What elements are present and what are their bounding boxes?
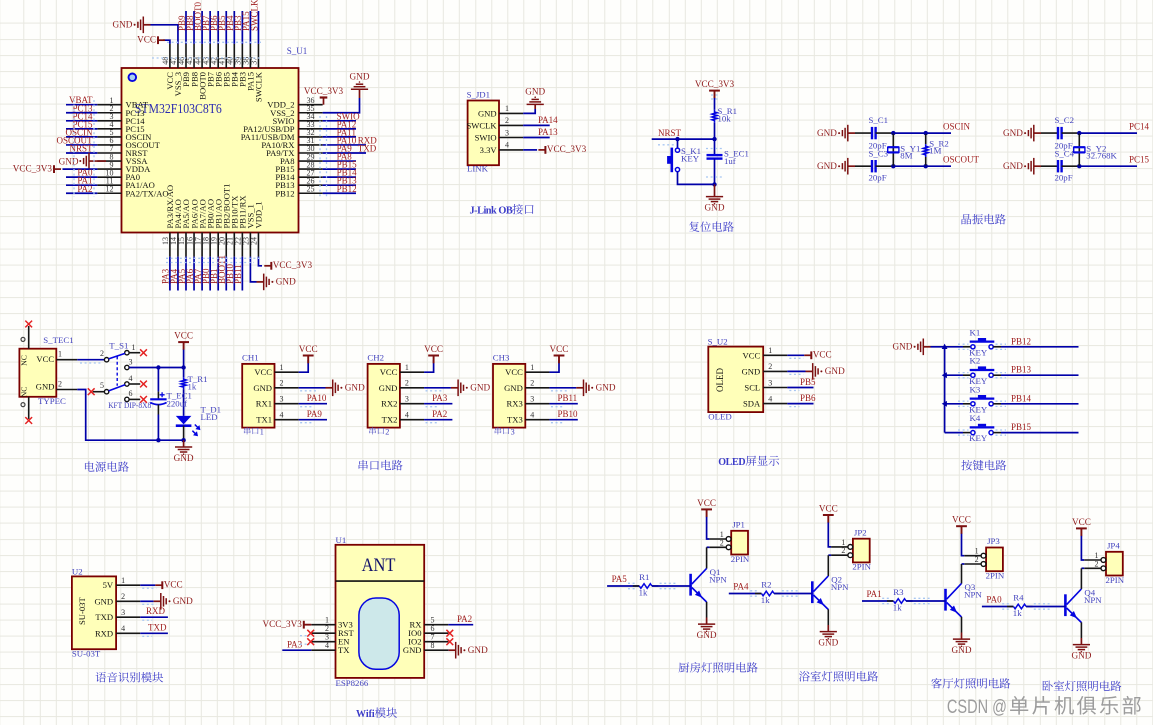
svg-text:PB11: PB11 <box>233 264 243 284</box>
pin 16 PA6/AO (bottom) <box>185 199 199 256</box>
svg-text:OLED: OLED <box>718 457 745 468</box>
caption yushideng zhaoming dianlu <box>799 671 810 681</box>
pin 44 BOOT0 (top) <box>193 44 207 100</box>
wire + net label PA1 <box>862 589 894 601</box>
pin 15 PA5/AO (bottom) <box>177 199 191 256</box>
svg-text:3: 3 <box>511 427 515 436</box>
wire + net label PC13 (pin 2) <box>66 103 97 113</box>
svg-text:GND: GND <box>818 638 838 648</box>
connector CH3 body <box>493 352 526 427</box>
op-amp U1 -- MCU S_U1 STM32F103C8T6 body <box>122 46 308 233</box>
svg-text:3: 3 <box>530 395 534 404</box>
wire GND to S_C4 <box>1041 165 1057 167</box>
selection dashes (CH3) <box>551 391 570 423</box>
pin 2 GND (S_U2) <box>742 362 788 376</box>
svg-text:GND: GND <box>345 383 365 393</box>
wire VCC to JP4 pin1 <box>1081 536 1084 560</box>
svg-text:GND: GND <box>817 161 837 171</box>
switch T_S1 KFT DIP-8X8 <box>93 340 152 410</box>
pin 2 GND (S_TEC1) <box>56 379 77 389</box>
svg-text:VCC_3V3: VCC_3V3 <box>695 79 735 89</box>
svg-text:2: 2 <box>530 379 534 388</box>
no-connect X at U1 RST <box>307 630 314 637</box>
pin 14 PA4/AO (bottom) <box>169 199 183 256</box>
pin 5 OSCIN (left) <box>97 128 152 142</box>
svg-text:1: 1 <box>405 363 409 372</box>
svg-text:VCC: VCC <box>505 367 523 377</box>
svg-text:PA0: PA0 <box>986 595 1002 605</box>
svg-text:8: 8 <box>431 641 435 650</box>
pin 4 RXD (U2) <box>95 624 140 638</box>
svg-text:OLED: OLED <box>708 412 731 422</box>
push button K1 KEY <box>969 327 994 357</box>
pin 38 PA15 (top) <box>242 44 256 91</box>
pin NC top (S_TEC1) <box>21 326 29 349</box>
pin 35 VSS_2 (right) <box>270 104 323 118</box>
svg-text:1: 1 <box>260 427 264 436</box>
pin 4 TX2 (CH2) <box>382 411 424 425</box>
connector JP3 2PIN body <box>986 536 1005 580</box>
svg-text:GND: GND <box>468 645 488 655</box>
selection dashes on VCC wire <box>80 362 102 364</box>
pin NC bottom (S_TEC1) <box>21 397 29 419</box>
wire + net label OSCOUT <box>893 155 979 167</box>
pin 3 EN (U1 left) <box>311 633 350 647</box>
resistor T_R1 1k <box>181 374 207 392</box>
svg-text:GND: GND <box>705 203 725 213</box>
svg-text:PA14: PA14 <box>538 115 558 125</box>
svg-text:OLED: OLED <box>715 368 725 392</box>
svg-text:2: 2 <box>505 116 509 125</box>
pin 31 PA10/RX (right) <box>261 136 322 150</box>
svg-text:GND: GND <box>276 277 296 287</box>
svg-text:5: 5 <box>100 381 104 390</box>
pin 2 (JP2) <box>831 546 853 557</box>
resistor S_R2 1M <box>923 138 948 157</box>
power VCC_3V3 at U1 pin1 <box>262 619 311 629</box>
junction node PC15 <box>1077 164 1081 168</box>
svg-text:PA4: PA4 <box>733 582 749 592</box>
junction bottom node at cap <box>156 438 160 442</box>
svg-text:PB10: PB10 <box>558 409 579 419</box>
wire T_S1 pin3 to VCC rail <box>129 367 184 369</box>
pin 2 SWCLK (S_JD1) <box>467 116 524 130</box>
wire + net label BOOT1 (pin 20) <box>217 255 227 291</box>
connector S_JD1 LINK body <box>467 90 499 174</box>
pin 21 PB10/TX (bottom) <box>226 195 240 257</box>
svg-text:SWCLK: SWCLK <box>249 0 259 31</box>
svg-text:JP3: JP3 <box>987 536 1000 546</box>
svg-text:GND: GND <box>596 383 616 393</box>
wire bottom node to GND <box>714 184 716 196</box>
svg-text:PB12: PB12 <box>337 184 357 194</box>
pin 24 VDD_1 (bottom) <box>250 201 264 256</box>
svg-text:NC: NC <box>20 387 29 398</box>
svg-text:PA5: PA5 <box>612 574 628 584</box>
pin 47 VSS_3 (top) <box>169 44 183 97</box>
selection dashes (S_U2) <box>789 358 803 406</box>
pin 1 (JP2) <box>831 538 853 549</box>
no-connect X top <box>25 321 32 328</box>
svg-text:TXD: TXD <box>95 612 113 622</box>
svg-text:OSCOUT: OSCOUT <box>943 155 980 165</box>
svg-text:3: 3 <box>405 395 409 404</box>
ground GND (Q3) <box>952 633 972 656</box>
wire U1 pin8 to GND <box>447 649 449 651</box>
svg-text:KEY: KEY <box>681 154 700 164</box>
pin 3 TXD (U2) <box>95 608 140 622</box>
pin 4 PC15 (left) <box>97 120 144 134</box>
wire S_U2 pin2 to GND <box>787 370 805 372</box>
capacitor S_C3 20pF <box>869 149 889 183</box>
svg-text:LINK: LINK <box>467 163 489 173</box>
wire + net label PA14 (SWCLK) <box>523 115 558 126</box>
pin 6 IO0 (U1 right) <box>408 624 448 638</box>
power VCC at U2 pin1 <box>161 581 163 589</box>
svg-text:K2: K2 <box>970 356 981 366</box>
wire NRST node down to key S_K1 <box>677 139 679 148</box>
svg-text:GND: GND <box>1003 161 1023 171</box>
connector CH2 body <box>367 352 400 427</box>
pin 18 PB0/AO (bottom) <box>201 199 215 257</box>
pin 2 GND (CH3) <box>504 379 549 393</box>
pin 48 VCC (top) <box>161 44 175 90</box>
svg-text:S_TEC1: S_TEC1 <box>43 335 73 345</box>
emitter lead Q1 <box>706 602 708 618</box>
wire bottom node to GND <box>183 440 185 447</box>
svg-text:2: 2 <box>1095 559 1099 568</box>
junction bottom node <box>712 182 716 186</box>
svg-text:2: 2 <box>975 555 979 564</box>
wire VCC to JP3 pin1 <box>962 534 965 556</box>
pin 23 VSS_1 (bottom) <box>242 204 256 257</box>
wire + net label NRST <box>652 128 715 139</box>
svg-text:PA2: PA2 <box>77 184 92 194</box>
collector lead Q3 <box>961 564 963 584</box>
push button K4 KEY <box>969 413 994 443</box>
wire + net label PA7 (pin 17) <box>193 257 203 291</box>
pin 3 RX2 (CH2) <box>381 395 424 409</box>
pin 4 TX3 (CH3) <box>507 411 549 425</box>
svg-text:ESP8266: ESP8266 <box>336 678 369 688</box>
svg-text:GND: GND <box>1071 651 1091 661</box>
svg-text:PB11: PB11 <box>558 393 578 403</box>
svg-text:GND: GND <box>504 383 523 393</box>
collector lead Q2 <box>827 555 829 576</box>
pin 1 5V (U2) <box>103 576 141 590</box>
svg-text:Wifi: Wifi <box>356 709 375 720</box>
wire key rail vertical <box>944 347 946 433</box>
svg-text:VCC_3V3: VCC_3V3 <box>304 86 344 96</box>
svg-text:VCC: VCC <box>550 344 569 354</box>
caption fuwei dianlu <box>689 221 699 231</box>
svg-text:VCC: VCC <box>743 350 761 360</box>
wire + net label PA3 (U1 TX) <box>282 640 311 651</box>
wire rail to K3 <box>945 403 963 405</box>
svg-text:PB15: PB15 <box>1011 422 1032 432</box>
power VCC_3V3 at pin 9 VDDA <box>13 163 98 173</box>
wire + net label PA9 <box>299 409 327 420</box>
svg-text:PA2: PA2 <box>457 614 472 624</box>
capacitor S_C2 20pF <box>1055 115 1075 151</box>
wire + net label PB14 (K3) <box>993 393 1078 404</box>
svg-text:RXD: RXD <box>95 628 113 638</box>
wire CH1 pin2 to GND <box>299 387 326 389</box>
selection dashes (CH1) <box>300 391 319 423</box>
wire + net label PA4 (pin 14) <box>169 257 179 291</box>
svg-text:1k: 1k <box>639 588 648 598</box>
pin 29 PA8 (right) <box>280 152 323 166</box>
svg-text:VCC: VCC <box>380 367 398 377</box>
svg-text:3: 3 <box>121 608 125 617</box>
wire + net label PB5 (SCL) <box>787 377 816 388</box>
svg-text:4: 4 <box>530 411 534 420</box>
svg-text:VCC: VCC <box>164 579 183 589</box>
svg-text:PA2: PA2 <box>432 409 447 419</box>
caption anjian dianlu <box>961 460 972 470</box>
ground GND at pin 23 <box>257 281 264 283</box>
wire + net label PA0 (pin 10) <box>66 168 97 178</box>
designator chuankou1 <box>244 427 264 436</box>
svg-text:GND: GND <box>379 383 398 393</box>
power VCC (Q2) <box>819 503 838 522</box>
ground GND (CH1) <box>326 387 333 389</box>
wire + net label PA2 (U1 RX) <box>448 614 473 625</box>
svg-text:1: 1 <box>280 363 284 372</box>
pin 9 VDDA (left) <box>97 160 151 174</box>
ground GND at S_U2 pin2 <box>806 370 813 372</box>
svg-text:VCC: VCC <box>424 344 443 354</box>
svg-text:GND: GND <box>697 630 717 640</box>
caption J-Link OB jiekou <box>470 204 534 217</box>
svg-text:GND: GND <box>59 156 79 166</box>
caption ketingdeng zhaoming dianlu <box>931 678 942 688</box>
wire + net label VBAT (pin 1) <box>66 95 97 105</box>
connector S_TEC1 TYPEC body <box>19 335 73 406</box>
svg-text:VCC_3V3: VCC_3V3 <box>262 619 302 629</box>
ground GND (Q2) <box>818 625 838 648</box>
wire S_R1 to NRST node <box>714 123 716 139</box>
svg-text:PA3: PA3 <box>432 393 448 403</box>
pin 1 VCC (CH2) <box>380 363 424 377</box>
svg-text:NPN: NPN <box>964 590 982 600</box>
svg-text:3.3V: 3.3V <box>480 145 498 155</box>
pin 10 PA0 (left) <box>97 168 140 182</box>
pin 5 RX (U1 right) <box>410 616 449 630</box>
pin 3 PC14 (left) <box>97 112 145 126</box>
wire + net label SWCLK (pin 37) <box>249 0 259 44</box>
svg-text:SU-03T: SU-03T <box>72 649 101 659</box>
svg-text:PB14: PB14 <box>1011 393 1032 403</box>
svg-text:20pF: 20pF <box>869 172 887 182</box>
pin 12 PA2/TX/AO (left) <box>97 184 168 198</box>
svg-text:TYPEC: TYPEC <box>38 396 66 406</box>
pin 1 GND (S_JD1) <box>478 104 523 118</box>
wire + net label PB3 (pin 39) <box>233 11 243 44</box>
pin 1 VCC (CH1) <box>254 363 298 377</box>
capacitor S_C1 20pF <box>869 115 889 151</box>
module U2 SU-03T body <box>72 566 116 658</box>
svg-text:PB5: PB5 <box>800 377 816 387</box>
selection dashes (Q3 input) <box>882 598 930 603</box>
svg-text:VCC_3V3: VCC_3V3 <box>273 260 313 270</box>
wire VCC pin to switch pin2 <box>77 359 104 361</box>
svg-text:VCC: VCC <box>137 34 156 44</box>
connector JP2 2PIN body <box>852 527 871 571</box>
pin 2 GND (CH1) <box>253 379 298 393</box>
svg-text:GND: GND <box>253 383 272 393</box>
svg-text:VCC: VCC <box>697 498 716 508</box>
junction at VCC rail <box>181 365 185 369</box>
svg-text:25: 25 <box>307 184 315 193</box>
wire + net label PA6 (pin 16) <box>185 257 195 291</box>
svg-text:R4: R4 <box>1013 593 1024 603</box>
wire + net label PA2 <box>424 409 452 420</box>
svg-text:VCC: VCC <box>254 367 272 377</box>
selection dashes (K1) <box>958 344 1006 349</box>
svg-text:1: 1 <box>58 350 62 359</box>
svg-text:VCC_3V3: VCC_3V3 <box>547 144 587 154</box>
wire S_EC1 to bottom node <box>714 159 716 185</box>
svg-text:NPN: NPN <box>709 575 727 585</box>
ground GND (Q1) <box>697 618 717 641</box>
wire + net label PB8 (pin 45) <box>185 11 195 44</box>
wire + net label PA9 (pin 30) <box>323 144 377 154</box>
svg-text:K3: K3 <box>970 384 981 394</box>
wire + net label PA2 (pin 12) <box>66 184 97 194</box>
watermark CSDN <box>947 696 1141 718</box>
pin 2 PC13 (left) <box>97 104 144 118</box>
pin 4 TX1 (CH1) <box>256 411 298 425</box>
wire + net label PB12 (K1) <box>993 336 1078 347</box>
svg-text:T_S1: T_S1 <box>109 340 128 350</box>
junction bottom node at LED <box>181 438 185 442</box>
wire + net label PC14 (pin 3) <box>66 111 97 121</box>
svg-text:TX3: TX3 <box>507 415 523 425</box>
capacitor S_EC1 1uf <box>707 149 749 167</box>
connector JP4 2PIN body <box>1106 541 1125 585</box>
crystal S_Y2 32.768K <box>1074 143 1118 160</box>
svg-text:PC15: PC15 <box>1129 155 1150 165</box>
svg-text:2PIN: 2PIN <box>986 571 1005 581</box>
svg-text:2: 2 <box>280 379 284 388</box>
wire U2 pin2 to GND <box>140 600 153 602</box>
svg-text:JP2: JP2 <box>854 527 867 537</box>
ground GND key circuit <box>923 346 930 348</box>
wire + net label PB14 (pin 27) <box>323 168 357 178</box>
svg-text:GND: GND <box>952 645 972 655</box>
power VCC rail top <box>174 331 193 350</box>
pin 4 TX (U1 left) <box>311 641 350 655</box>
wire + net label NRST (pin 7) <box>66 144 97 154</box>
pin 1 (JP1) <box>709 530 731 541</box>
wire S_C1 to node OSCIN <box>876 132 894 134</box>
svg-text:GND: GND <box>1003 128 1023 138</box>
svg-text:PA13: PA13 <box>538 127 558 137</box>
pin 17 PA7/AO (bottom) <box>193 199 207 256</box>
junction at key branch <box>675 137 679 141</box>
svg-text:GND: GND <box>403 645 422 655</box>
ground GND (OSCOUT row) <box>848 165 855 167</box>
wire S_R2 branch upper <box>925 133 927 144</box>
svg-text:RX3: RX3 <box>507 399 523 409</box>
resistor R3 1k <box>887 587 913 613</box>
svg-text:CSDN @: CSDN @ <box>947 697 1007 718</box>
svg-text:2: 2 <box>768 362 772 371</box>
wire + net label PA10 <box>299 393 327 404</box>
power VCC (Q1) <box>697 498 716 517</box>
pin 26 PB13 (right) <box>275 176 322 190</box>
svg-text:1uf: 1uf <box>724 156 736 166</box>
selection dashes left of MCU <box>74 100 94 197</box>
wire S_JD1 pin4 to VCC_3V3 <box>523 149 537 151</box>
resistor S_R1 10k <box>712 106 737 124</box>
wire + net label PA3 <box>424 393 452 404</box>
svg-text:CH3: CH3 <box>493 352 510 362</box>
svg-text:R1: R1 <box>639 572 649 582</box>
svg-text:JP1: JP1 <box>732 520 745 530</box>
wire S_R2 branch lower <box>925 157 927 166</box>
transistor Q1 NPN <box>691 567 728 602</box>
svg-text:TX2: TX2 <box>382 415 398 425</box>
svg-text:20pF: 20pF <box>1055 172 1073 182</box>
svg-text:VCC_3V3: VCC_3V3 <box>13 163 53 173</box>
svg-text:R3: R3 <box>893 587 904 597</box>
svg-text:SCL: SCL <box>744 383 760 393</box>
svg-text:LED: LED <box>201 412 218 422</box>
pin 6 OSCOUT (left) <box>97 136 160 150</box>
wire + net label PA1 (pin 11) <box>66 176 97 186</box>
svg-text:2PIN: 2PIN <box>1106 575 1125 585</box>
pin 43 PB7 (top) <box>201 44 215 87</box>
wire + net label PA0 <box>982 595 1014 607</box>
svg-text:K1: K1 <box>970 327 981 337</box>
svg-text:3: 3 <box>129 357 133 366</box>
pin 4 SDA (S_U2) <box>743 394 787 408</box>
wire + net label OSCIN <box>893 122 970 134</box>
module U1 ESP8266 body <box>336 535 425 688</box>
wire rail to K1 <box>945 346 963 348</box>
svg-text:5V: 5V <box>103 580 114 590</box>
svg-text:4: 4 <box>325 641 329 650</box>
caption yuyin shibie mokuai <box>96 672 107 682</box>
svg-text:RX2: RX2 <box>381 399 397 409</box>
push button K3 KEY <box>969 384 994 414</box>
svg-text:2: 2 <box>100 349 104 358</box>
wire S_U2 pin1 to VCC <box>787 354 804 356</box>
svg-text:1: 1 <box>530 363 534 372</box>
junction key rail row 3 <box>942 401 947 407</box>
svg-text:VCC: VCC <box>36 354 54 364</box>
transistor Q2 NPN <box>812 575 849 610</box>
svg-text:S_JD1: S_JD1 <box>467 90 490 100</box>
svg-text:GND: GND <box>36 381 55 391</box>
wire + net label OSCIN (pin 5) <box>65 127 97 137</box>
wire R2 to Q2 base <box>774 593 812 595</box>
svg-text:U2: U2 <box>72 566 83 576</box>
power VCC_3V3 at S_JD1 pin4 <box>544 146 546 154</box>
capacitor T_EC1 220uf <box>150 391 192 409</box>
wire crystal branch <box>892 133 894 166</box>
pin 32 PA11/USB/DM (right) <box>241 128 323 142</box>
svg-text:1k: 1k <box>1013 608 1022 618</box>
wire S_C2 to node PC14 <box>1062 132 1080 134</box>
power VCC_3V3 reset circuit <box>695 79 735 98</box>
wire GND to S_C2 <box>1041 132 1057 134</box>
selection dashes (U2) <box>142 588 156 636</box>
svg-text:PA2/TX/AO: PA2/TX/AO <box>126 188 169 198</box>
svg-text:GND: GND <box>94 596 113 606</box>
